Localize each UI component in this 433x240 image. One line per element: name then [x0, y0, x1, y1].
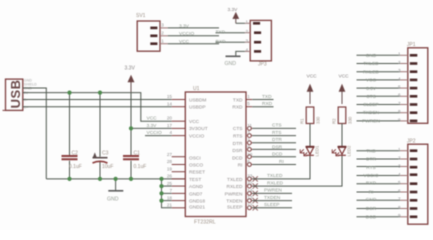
svg-text:VCCIO: VCCIO — [189, 134, 204, 140]
svg-text:DTR: DTR — [272, 137, 282, 143]
svg-text:AGND: AGND — [189, 184, 203, 190]
junction gnd-stub-rail — [114, 177, 118, 181]
svg-text:RXD: RXD — [262, 101, 273, 107]
wire RXLED — [252, 156, 342, 186]
svg-text:VCC: VCC — [147, 116, 158, 122]
svg-text:GND: GND — [107, 197, 119, 203]
svg-text:14: 14 — [167, 101, 173, 106]
svg-text:TXD: TXD — [216, 30, 226, 36]
SV1 net labels — [179, 23, 194, 45]
svg-text:TXDEN: TXDEN — [363, 110, 380, 116]
svg-text:DCD: DCD — [272, 152, 283, 158]
svg-text:LED2: LED2 — [347, 145, 352, 157]
wire R1 to LED1 — [309, 124, 311, 147]
junction AGND — [159, 184, 163, 188]
svg-text:VCC: VCC — [307, 74, 318, 80]
svg-text:1: 1 — [161, 39, 164, 44]
svg-text:CTS: CTS — [272, 123, 282, 129]
svg-text:4: 4 — [398, 172, 401, 177]
svg-text:SLEEP: SLEEP — [264, 202, 279, 208]
capacitor C3 (10uF polarized) — [99, 93, 101, 157]
IC left pin numbers — [167, 94, 173, 207]
wire D+ from USB to USBDP pin 14 — [23, 106, 172, 108]
svg-text:19: 19 — [167, 166, 173, 171]
svg-text:TXLED: TXLED — [227, 177, 243, 183]
svg-text:3V3OUT: 3V3OUT — [189, 126, 208, 132]
svg-text:RI: RI — [369, 190, 374, 196]
svg-text:OSCI: OSCI — [189, 155, 201, 161]
svg-text:20: 20 — [167, 116, 173, 121]
svg-text:TXLED: TXLED — [267, 173, 283, 179]
svg-text:4: 4 — [245, 48, 248, 53]
SV1 pin numbers — [161, 23, 164, 44]
svg-text:VCC: VCC — [339, 74, 350, 80]
svg-text:C3: C3 — [102, 150, 109, 156]
svg-text:C1: C1 — [134, 150, 141, 156]
ground symbol (caps rail) — [115, 179, 117, 190]
LED LED2 — [338, 147, 346, 154]
svg-text:USBDP: USBDP — [189, 105, 206, 111]
svg-text:5: 5 — [398, 180, 401, 185]
svg-text:3.3V: 3.3V — [125, 66, 136, 72]
svg-text:3: 3 — [398, 68, 401, 73]
svg-text:RXLED: RXLED — [267, 180, 284, 186]
svg-text:8: 8 — [398, 109, 401, 114]
svg-text:2: 2 — [247, 137, 250, 142]
connector JP3 — [250, 20, 271, 61]
IC right pin numbers — [247, 94, 253, 207]
svg-text:RXLED: RXLED — [363, 69, 380, 75]
wire SLEEP — [252, 207, 292, 209]
svg-text:LED1: LED1 — [315, 145, 320, 157]
svg-text:R2: R2 — [332, 118, 337, 124]
wire GND18 — [162, 200, 172, 202]
wire TXLED — [252, 156, 310, 179]
svg-text:3: 3 — [161, 23, 164, 28]
svg-text:11: 11 — [247, 123, 252, 128]
svg-text:TXDEN: TXDEN — [264, 195, 281, 201]
svg-text:25: 25 — [167, 181, 173, 186]
svg-text:9: 9 — [247, 145, 250, 150]
svg-text:RI: RI — [238, 163, 243, 169]
JP2 pin numbers — [398, 147, 401, 218]
junction C1-rail — [129, 177, 133, 181]
junction GND18 — [159, 199, 163, 203]
svg-text:PWREN: PWREN — [225, 191, 243, 197]
svg-text:TXLED: TXLED — [363, 61, 379, 67]
svg-text:DCD: DCD — [232, 155, 243, 161]
JP1 pads — [410, 54, 418, 122]
svg-text:GND21: GND21 — [189, 205, 205, 211]
svg-text:1: 1 — [247, 94, 250, 99]
svg-text:13: 13 — [247, 195, 253, 200]
ground symbol at JP3 — [226, 55, 241, 57]
SV1 net wires — [168, 28, 219, 44]
svg-text:VCCIO: VCCIO — [363, 173, 378, 179]
wire DCD — [252, 156, 296, 158]
JP3 pads — [253, 22, 261, 53]
svg-text:R1: R1 — [300, 118, 305, 124]
svg-text:PWREN: PWREN — [362, 119, 380, 125]
wire PWREN — [252, 192, 292, 194]
svg-text:23: 23 — [247, 173, 253, 178]
svg-text:OSCO: OSCO — [189, 163, 203, 169]
wire JP3 pin4 to GND — [236, 51, 245, 55]
svg-text:D+: D+ — [24, 105, 29, 109]
svg-text:15: 15 — [167, 94, 173, 99]
JP1 net wires — [357, 55, 401, 121]
junction C3-rail — [98, 177, 102, 181]
JP3 pin numbers — [245, 20, 248, 53]
JP2 pin stubs — [400, 151, 408, 217]
svg-text:5: 5 — [247, 101, 250, 106]
wire TXD — [252, 99, 273, 101]
svg-text:5: 5 — [398, 85, 401, 90]
svg-text:SLEEP: SLEEP — [227, 205, 242, 211]
svg-text:DTR: DTR — [233, 141, 243, 147]
svg-text:CTS: CTS — [366, 94, 376, 100]
svg-text:3: 3 — [398, 164, 401, 169]
IC right pin names — [225, 98, 243, 211]
svg-text:USBDM: USBDM — [189, 98, 206, 104]
svg-text:1: 1 — [245, 20, 248, 25]
wire JP3 pin3 RXD — [216, 41, 245, 43]
svg-text:28: 28 — [167, 159, 173, 164]
svg-text:C2: C2 — [72, 150, 79, 156]
SV1 pads — [150, 27, 157, 45]
ground rail wire — [46, 178, 185, 180]
wire CTS — [252, 127, 296, 129]
wire GND7 — [162, 192, 172, 194]
svg-text:TEST: TEST — [189, 177, 201, 183]
wire GND from USB down to ground rail — [23, 88, 47, 179]
svg-text:26: 26 — [167, 174, 173, 179]
svg-text:1: 1 — [398, 147, 401, 152]
junction 3.3V/3V3OUT — [129, 126, 133, 130]
SV1 pin stubs — [160, 28, 168, 44]
svg-text:TXD: TXD — [262, 94, 272, 100]
svg-text:RXD: RXD — [216, 39, 227, 45]
svg-text:GND: GND — [225, 61, 237, 67]
svg-text:330: 330 — [348, 116, 353, 124]
svg-text:6: 6 — [247, 159, 250, 164]
svg-text:VCC: VCC — [189, 119, 200, 125]
svg-text:9: 9 — [398, 117, 401, 122]
svg-text:9: 9 — [398, 213, 401, 218]
wire RXD — [252, 106, 273, 108]
junction C2-rail — [67, 177, 71, 181]
svg-text:FT232RL: FT232RL — [194, 220, 216, 226]
wire D- from USB to USBDM pin 15 — [23, 99, 172, 101]
svg-text:14: 14 — [247, 188, 253, 193]
svg-text:RXD: RXD — [232, 105, 243, 111]
wire VBUS/VCC from USB to IC pin 20 — [23, 93, 172, 122]
svg-text:2: 2 — [245, 29, 248, 34]
svg-text:VCCIO: VCCIO — [147, 130, 162, 136]
junction VBUS-C3 — [98, 91, 102, 95]
wire TXDEN — [252, 200, 292, 202]
resistor R1 330 — [306, 107, 314, 124]
svg-text:0.1uF: 0.1uF — [134, 164, 147, 170]
wire AGND — [162, 185, 172, 187]
LED LED1 — [306, 147, 314, 154]
wire RI — [252, 164, 296, 166]
svg-text:0.1uF: 0.1uF — [69, 164, 82, 170]
svg-text:U1: U1 — [193, 86, 200, 92]
svg-text:GND7: GND7 — [189, 191, 203, 197]
JP3 pin stubs — [245, 23, 250, 51]
USB pin name labels — [24, 79, 37, 110]
svg-text:VCC: VCC — [366, 78, 377, 84]
svg-text:4: 4 — [398, 76, 401, 81]
svg-text:3: 3 — [245, 39, 248, 44]
capacitor C2 — [69, 93, 71, 156]
USB connector X1 — [3, 79, 23, 110]
capacitor C1 — [123, 156, 139, 159]
JP1 net labels — [362, 53, 380, 125]
svg-text:TXD: TXD — [366, 148, 376, 154]
JP1 pin stubs — [400, 55, 408, 121]
wire R2 to LED2 — [341, 124, 343, 147]
svg-text:2: 2 — [398, 155, 401, 160]
JP2 net labels — [363, 148, 378, 220]
wire JP3 pin2 TXD — [216, 32, 245, 34]
svg-text:CTS: CTS — [233, 126, 243, 132]
svg-text:TXD: TXD — [233, 98, 243, 104]
svg-text:GND: GND — [366, 197, 377, 203]
svg-text:GND: GND — [366, 53, 377, 59]
resistor R2 330 — [338, 107, 346, 124]
svg-text:SLEEP: SLEEP — [363, 102, 378, 108]
junction GND7 — [159, 191, 163, 195]
svg-text:27: 27 — [167, 152, 173, 157]
wire RTS — [252, 135, 296, 137]
svg-text:USB: USB — [8, 79, 23, 108]
svg-text:3.3V: 3.3V — [366, 86, 377, 92]
svg-text:DSR: DSR — [366, 206, 377, 212]
svg-text:330: 330 — [316, 116, 321, 124]
JP2 pads — [410, 149, 418, 218]
svg-text:2: 2 — [398, 60, 401, 65]
svg-text:GND18: GND18 — [189, 199, 205, 205]
svg-text:RXD: RXD — [366, 180, 377, 186]
wire JP3 pin1 to 3.3V — [236, 22, 245, 24]
JP1 pin numbers — [398, 52, 401, 123]
svg-text:RTS: RTS — [233, 134, 243, 140]
svg-text:PWREN: PWREN — [264, 188, 282, 194]
svg-text:10: 10 — [247, 152, 253, 157]
svg-text:1: 1 — [398, 52, 401, 57]
svg-text:2: 2 — [161, 31, 164, 36]
svg-text:17: 17 — [167, 123, 173, 128]
svg-text:7: 7 — [169, 188, 172, 193]
svg-text:TXDEN: TXDEN — [226, 199, 243, 205]
svg-text:VCC: VCC — [179, 39, 190, 45]
svg-text:7: 7 — [398, 101, 401, 106]
IC left pin names — [189, 98, 208, 211]
svg-text:VCCIO: VCCIO — [179, 31, 194, 37]
IC U1 FT232RL box — [185, 92, 246, 217]
svg-text:8: 8 — [398, 205, 401, 210]
svg-text:RTS: RTS — [272, 130, 282, 136]
svg-text:DSR: DSR — [272, 144, 283, 150]
svg-text:22: 22 — [247, 181, 253, 186]
svg-text:DSR: DSR — [232, 148, 243, 154]
svg-text:RESET: RESET — [189, 170, 205, 176]
svg-text:7: 7 — [398, 197, 401, 202]
CBUS pin cross marks — [253, 176, 258, 181]
GND chain vertical wire at IC left — [162, 179, 172, 208]
svg-text:21: 21 — [167, 203, 173, 208]
wire 3V3OUT branch to pin 17 — [131, 127, 172, 129]
wire VCCIO stub to pin 4 — [145, 135, 172, 137]
wire DTR — [252, 142, 296, 144]
wire DSR — [252, 148, 296, 150]
svg-text:10uF: 10uF — [102, 164, 113, 170]
svg-text:3.3V: 3.3V — [147, 123, 158, 129]
svg-text:3.3V: 3.3V — [228, 7, 239, 13]
IC left pin stubs — [172, 100, 186, 208]
wire 3.3V vertical down through C1 to rail — [130, 92, 132, 155]
svg-text:DCD: DCD — [366, 215, 377, 221]
svg-text:D-: D- — [24, 98, 29, 102]
svg-text:RI: RI — [279, 159, 284, 165]
svg-text:SV1: SV1 — [136, 13, 146, 19]
junction VBUS-C2 — [67, 91, 71, 95]
JP2 net wires — [357, 151, 401, 217]
svg-text:18: 18 — [167, 195, 173, 200]
svg-text:RXLED: RXLED — [227, 184, 244, 190]
svg-text:6: 6 — [398, 93, 401, 98]
svg-text:4: 4 — [169, 130, 172, 135]
junction rail-gndchain — [159, 177, 163, 181]
svg-text:DTR: DTR — [366, 157, 376, 163]
svg-text:12: 12 — [247, 202, 253, 207]
svg-text:RTS: RTS — [366, 165, 376, 171]
IC right pin stubs — [246, 100, 252, 210]
svg-text:6: 6 — [398, 188, 401, 193]
svg-text:3: 3 — [247, 130, 250, 135]
svg-text:3.3V: 3.3V — [179, 23, 190, 29]
svg-text:JP3: JP3 — [258, 62, 267, 68]
